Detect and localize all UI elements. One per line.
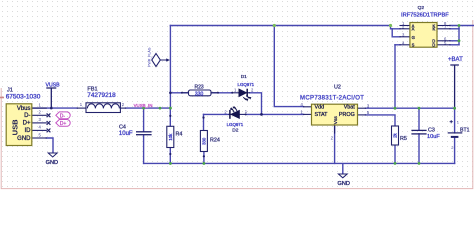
svg-text:D+: D+ (60, 121, 67, 127)
svg-text:VUSB_IN: VUSB_IN (134, 103, 153, 108)
svg-text:10uF: 10uF (119, 131, 133, 137)
svg-text:ID: ID (25, 128, 32, 134)
svg-text:10k: 10k (168, 133, 173, 141)
svg-text:67503-1030: 67503-1030 (6, 93, 41, 100)
svg-text:K: K (433, 27, 436, 32)
svg-text:10uF: 10uF (427, 134, 440, 140)
svg-text:R4: R4 (176, 132, 183, 138)
svg-text:D2: D2 (232, 127, 238, 133)
svg-text:R24: R24 (210, 138, 220, 144)
svg-text:D-: D- (24, 113, 30, 119)
svg-text:BT1: BT1 (460, 128, 470, 134)
svg-text:LGQ971: LGQ971 (227, 122, 244, 127)
svg-text:GND: GND (17, 136, 31, 142)
svg-text:MCP73831T-2ACI/OT: MCP73831T-2ACI/OT (300, 96, 364, 102)
svg-text:GND: GND (46, 160, 58, 166)
svg-text:D-: D- (60, 113, 66, 119)
svg-text:D+: D+ (23, 121, 31, 127)
svg-text:74279218: 74279218 (87, 92, 116, 99)
svg-text:R23: R23 (195, 84, 204, 90)
svg-text:A: A (412, 27, 415, 32)
svg-text:Q2: Q2 (418, 5, 425, 11)
svg-text:330: 330 (195, 91, 204, 97)
svg-text:U2: U2 (334, 85, 341, 91)
svg-text:D1: D1 (241, 74, 247, 80)
svg-text:R5: R5 (400, 136, 407, 142)
svg-text:C4: C4 (119, 125, 126, 131)
svg-text:VUSB: VUSB (46, 82, 61, 88)
svg-text:GND: GND (338, 181, 350, 187)
svg-text:Vss: Vss (333, 116, 339, 125)
svg-text:G: G (412, 35, 415, 40)
svg-text:Vbat: Vbat (344, 105, 356, 111)
svg-text:+BAT: +BAT (448, 57, 463, 63)
svg-text:D: D (432, 43, 435, 48)
svg-text:IRF7526D1TRPBF: IRF7526D1TRPBF (401, 12, 449, 18)
svg-text:Vbus: Vbus (17, 106, 31, 112)
svg-text:Vdd: Vdd (315, 105, 325, 111)
svg-text:330: 330 (202, 137, 207, 145)
svg-text:C3: C3 (428, 128, 435, 134)
svg-text:PWR_FLAG: PWR_FLAG (147, 47, 151, 67)
svg-text:STAT: STAT (315, 112, 329, 118)
svg-text:S: S (412, 43, 415, 48)
svg-text:PROG: PROG (339, 112, 355, 118)
svg-text:USB: USB (11, 119, 20, 136)
svg-text:LGQ971: LGQ971 (238, 82, 255, 87)
